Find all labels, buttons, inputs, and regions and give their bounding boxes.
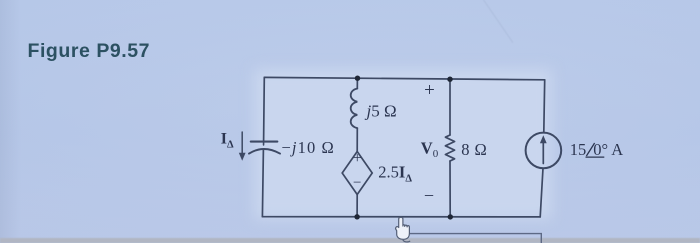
svg-text:+: + <box>424 80 435 101</box>
svg-text:2.5IΔ: 2.5IΔ <box>378 163 412 185</box>
svg-text:A: A <box>611 140 623 159</box>
svg-text:−: − <box>424 185 434 205</box>
svg-text:V0: V0 <box>421 139 439 161</box>
svg-text:−j10 Ω: −j10 Ω <box>282 138 335 157</box>
svg-text:j5 Ω: j5 Ω <box>365 102 397 121</box>
svg-text:IΔ: IΔ <box>221 131 234 151</box>
svg-text:−: − <box>353 175 361 191</box>
svg-text:+: + <box>353 150 362 167</box>
svg-text:15: 15 <box>570 140 587 159</box>
svg-text:8Ω: 8Ω <box>461 140 487 159</box>
svg-text:0°: 0° <box>593 140 608 159</box>
